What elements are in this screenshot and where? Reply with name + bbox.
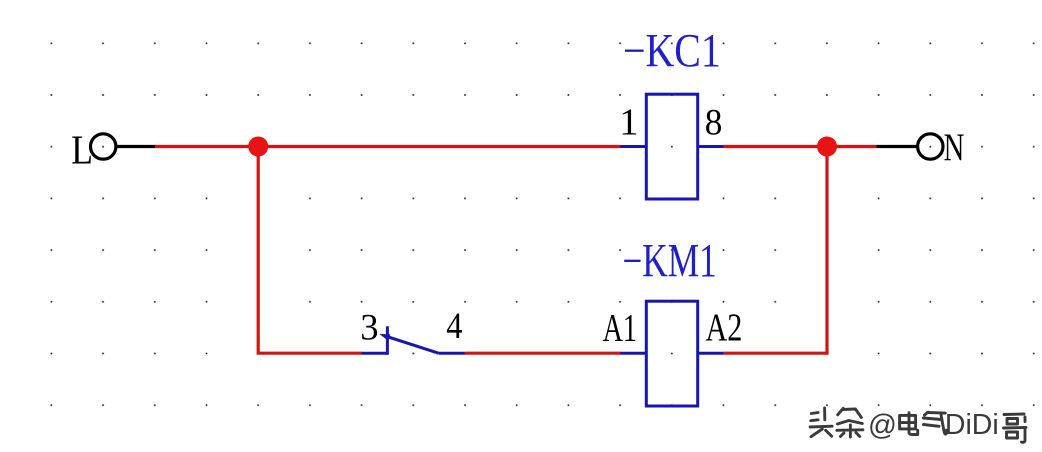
- watermark 头条 @电气DiDi哥: [810, 408, 1026, 442]
- wire KM1 pin A1 stub (blue): [620, 352, 646, 355]
- terminal L: [91, 134, 116, 159]
- switch contact fixed post: [386, 326, 389, 354]
- svg-text:4: 4: [446, 305, 462, 346]
- svg-text:DiDi: DiDi: [945, 409, 999, 441]
- wire top net left (red): [155, 145, 621, 148]
- contactor coil KM1: [646, 301, 697, 406]
- svg-text:−KC1: −KC1: [623, 25, 721, 78]
- relay coil KC1: [646, 94, 697, 199]
- wire KC1 pin 8 stub (blue): [698, 145, 724, 148]
- wire L stub (black): [117, 145, 156, 148]
- watermark char 头: [810, 408, 832, 437]
- svg-text:A1: A1: [603, 305, 637, 349]
- wire N stub (black): [876, 145, 918, 148]
- wire right branch (red, right and up): [723, 147, 827, 354]
- junction left: [248, 137, 268, 157]
- svg-text:3: 3: [360, 308, 378, 349]
- watermark char 哥: [1004, 414, 1027, 442]
- svg-text:8: 8: [705, 101, 723, 142]
- wire switch left stub (blue): [362, 352, 388, 355]
- wire left branch (red, down and right): [258, 147, 362, 354]
- svg-text:1: 1: [619, 102, 638, 144]
- switch arm arrowhead: [379, 334, 390, 341]
- wire KM1 pin A2 stub (blue): [698, 352, 724, 355]
- wire switch right stub (blue): [439, 352, 465, 355]
- wire KC1 pin 1 stub (blue): [620, 145, 646, 148]
- switch contact movable arm: [386, 336, 439, 353]
- watermark char 气: [923, 412, 946, 434]
- watermark char 电: [900, 413, 918, 435]
- wire top net right (red): [723, 145, 876, 148]
- junction right: [817, 137, 837, 157]
- watermark char 条: [837, 408, 863, 437]
- svg-text:−KM1: −KM1: [622, 236, 716, 288]
- svg-text:@: @: [868, 409, 897, 441]
- svg-text:A2: A2: [706, 305, 743, 349]
- svg-text:N: N: [944, 127, 965, 169]
- wire bottom net middle (red): [465, 352, 621, 355]
- svg-text:L: L: [71, 128, 93, 173]
- terminal N: [918, 134, 943, 159]
